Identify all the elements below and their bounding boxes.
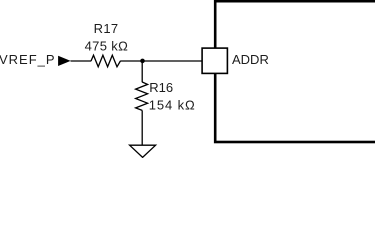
- resistor R17: [91, 55, 120, 67]
- svg-text:ADDR: ADDR: [232, 52, 269, 67]
- svg-text:VREF_P: VREF_P: [0, 52, 56, 67]
- svg-text:154 kΩ: 154 kΩ: [149, 98, 196, 113]
- IC block outline: [215, 1, 375, 142]
- svg-text:475 kΩ: 475 kΩ: [85, 38, 129, 53]
- wire arrow to R17: [71, 60, 92, 62]
- resistor R16: [136, 82, 148, 110]
- wire R17 to pin ADDR: [120, 60, 203, 62]
- svg-text:R16: R16: [149, 80, 173, 95]
- wire node to R16: [141, 61, 143, 82]
- input terminal arrow VREF_P: [58, 56, 71, 66]
- pin box ADDR: [202, 48, 227, 73]
- junction node dot: [140, 59, 145, 64]
- svg-text:R17: R17: [94, 21, 119, 36]
- wire R16 to ground: [141, 110, 143, 145]
- ground symbol: [130, 145, 156, 157]
